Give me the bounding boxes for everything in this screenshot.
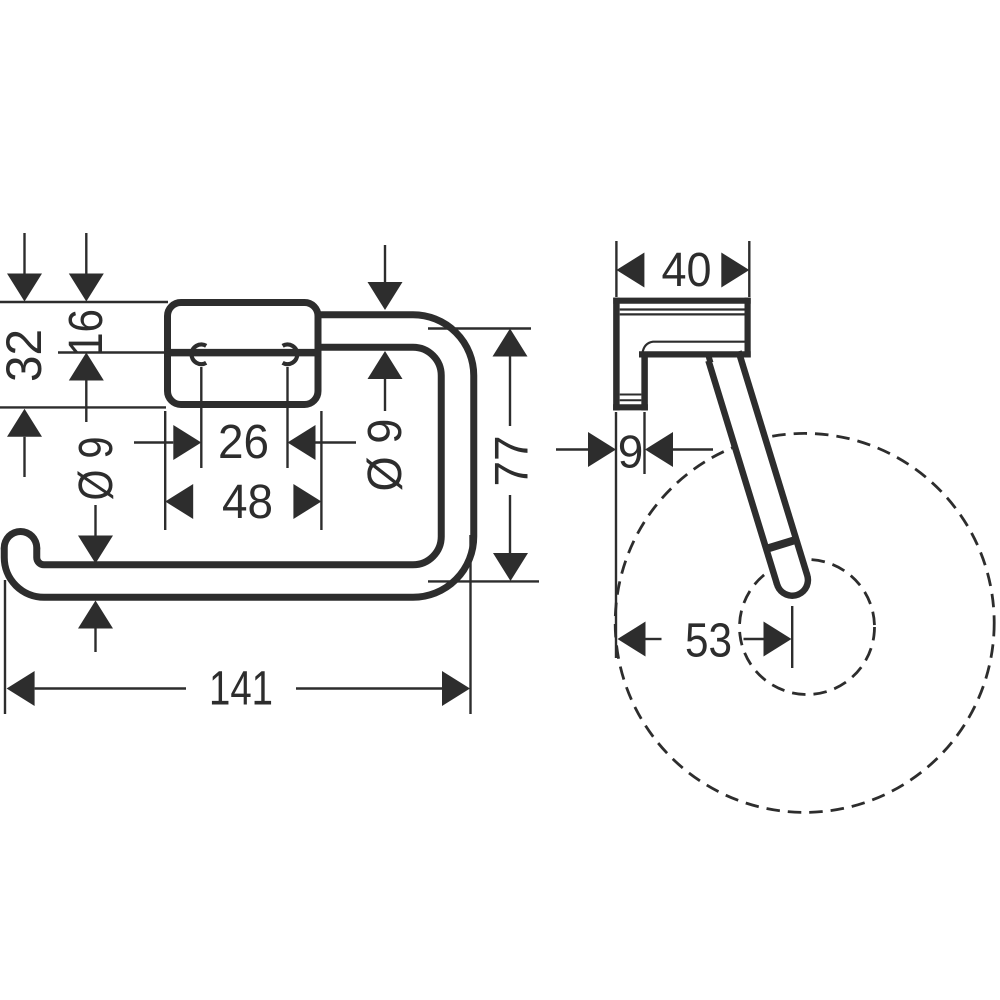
wall plate right edge — [641, 352, 648, 411]
dim dia9 bottom-bar top arrow — [94, 505, 96, 536]
dim dia9 bottom-bar bottom arrow — [78, 601, 113, 629]
svg-text:Ø 9: Ø 9 — [359, 419, 412, 492]
holder arm side view (black outline) — [724, 356, 793, 580]
reference line top (y302) — [0, 301, 168, 303]
dim 9 / 53 extension line left (wall) — [615, 412, 617, 658]
arm transverse band — [766, 539, 797, 549]
mounting plate front view — [168, 303, 319, 405]
arm left edge extension patch — [705, 354, 714, 362]
dim 32 top arrow — [23, 233, 25, 275]
screw slot right (arc open to left) — [283, 345, 298, 365]
dim 141 right arrow — [296, 687, 442, 689]
dim 48 extension lines — [164, 411, 166, 530]
screw slot left (arc open to right) — [192, 345, 207, 365]
wall plate inner line 1 — [620, 394, 642, 396]
dim 53 left arrow — [618, 622, 646, 657]
dim 53 extension line right — [791, 606, 793, 668]
reference line bottom (y409) — [0, 406, 166, 408]
arm tip cap — [773, 561, 811, 599]
svg-text:40: 40 — [662, 244, 712, 297]
dim 26 right arrow — [288, 425, 316, 460]
reference line middle (y352) — [58, 351, 167, 353]
svg-text:16: 16 — [60, 309, 113, 356]
dim 16 bottom arrow — [69, 353, 104, 381]
plate side: thin tube top line with corner — [643, 342, 745, 353]
plate side: bottom edge — [639, 351, 751, 357]
roll holder bar front view (black outline) — [21, 331, 458, 581]
plate side: thin front line 2 — [620, 313, 745, 315]
dim 141 extension line left — [4, 580, 6, 714]
dim 26 left arrow — [134, 441, 173, 443]
bar white core — [21, 331, 458, 581]
dim 48 right arrow — [293, 484, 321, 519]
dim 9 wall extension line right — [643, 412, 645, 474]
dim 9 right arrow — [645, 432, 673, 467]
wall plate left edge — [613, 298, 620, 411]
dim 40 extension lines — [615, 241, 617, 297]
svg-text:141: 141 — [209, 663, 273, 716]
dim 16 top arrow — [85, 233, 87, 275]
plate side: right edge — [744, 298, 750, 358]
dim 141 left arrow — [7, 671, 35, 706]
svg-text:32: 32 — [0, 329, 52, 382]
dim 40 left arrow — [616, 253, 644, 288]
dim dia9 top-bar top arrow — [384, 245, 386, 284]
wall plate bottom cap — [613, 404, 648, 410]
dim 77 bottom arrow — [509, 495, 511, 553]
svg-text:53: 53 — [685, 615, 732, 668]
extension line 141 right — [469, 535, 471, 714]
plate side: top edge — [613, 298, 750, 304]
dim 32 bottom arrow — [7, 409, 42, 437]
dim 9 left arrow — [556, 448, 588, 450]
plate side: thin front line 1 — [620, 308, 745, 310]
extension line 77 top — [428, 327, 531, 329]
bar end cap (rounded hook end) — [1, 528, 41, 568]
svg-text:Ø 9: Ø 9 — [70, 437, 123, 501]
dim 53 right arrow — [744, 638, 764, 640]
dim 77 top arrow — [493, 329, 528, 357]
svg-text:48: 48 — [222, 476, 273, 529]
svg-text:77: 77 — [485, 436, 538, 487]
extension line 77 bottom — [428, 580, 539, 582]
toilet paper roll outline (large dashed circle) — [615, 433, 994, 812]
svg-text:9: 9 — [618, 426, 644, 478]
dim 48 left arrow — [165, 484, 193, 519]
wall plate inner line 2 — [620, 399, 642, 401]
dim 26 extension lines — [200, 367, 202, 468]
dim 40 right arrow — [721, 253, 749, 288]
arm white core — [724, 356, 793, 580]
dim dia9 top-bar bottom arrow — [368, 351, 403, 379]
svg-text:26: 26 — [218, 416, 269, 469]
plate middle groove line — [165, 349, 320, 357]
roll core (small dashed circle) — [740, 560, 875, 695]
